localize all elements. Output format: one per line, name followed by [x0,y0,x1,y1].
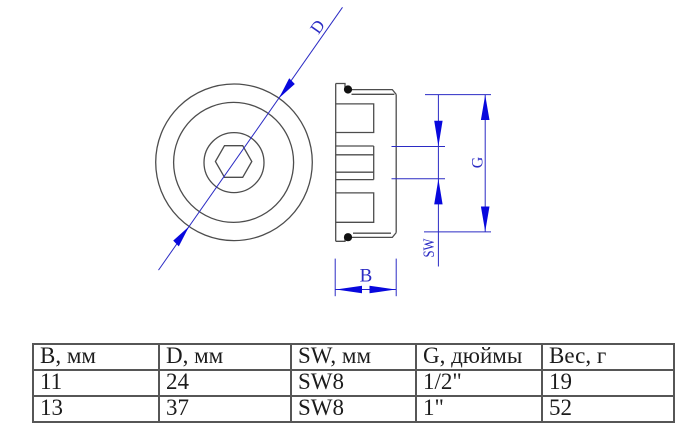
front view inner circle [204,133,264,193]
arrowhead SW down [434,121,442,146]
side view top cap edge [336,84,397,95]
dimension B line [335,289,396,291]
arrowhead D lower [173,226,189,246]
socket hex band right edge [373,146,375,180]
side view left edge [335,84,337,242]
side view right edge [395,94,397,232]
arrowhead G up [481,95,490,120]
dimension G extension line top [425,94,491,96]
dimension D diagonal line [159,7,343,270]
side view bottom thread line [353,232,391,234]
dimension SW line [437,95,439,267]
socket hex band line 1 [336,145,374,147]
dimension B extension line left [334,259,336,297]
socket bottom recess rectangle [336,193,374,222]
svg-text:D: D [306,16,329,37]
front view outer circle [156,84,313,241]
svg-text:G: G [470,156,487,168]
o-ring dot top [344,85,352,93]
o-ring dot bottom [344,233,352,241]
arrowhead B right [370,286,396,294]
hex socket hexagon [215,146,251,178]
arrowhead G down [481,207,490,232]
socket hex band line 3 [336,171,374,173]
socket top recess rectangle [336,104,374,133]
socket hex band line 4 [336,179,374,181]
dimension SW extension line top [392,146,446,148]
svg-text:SW: SW [421,238,438,258]
arrowhead D upper [279,78,295,98]
dimension G extension line bottom [424,231,491,233]
svg-text:B: B [360,266,373,287]
arrowhead SW up [434,179,442,204]
socket hex band line 2 [336,154,374,156]
dimension SW extension line bottom [392,178,446,180]
dimension B extension line right [395,259,397,297]
front view middle circle [174,102,294,222]
side view bottom cap edge [336,233,397,242]
data table [32,343,675,423]
dimension G line [484,95,486,232]
side view top thread line [352,93,395,95]
arrowhead B left [336,286,362,294]
